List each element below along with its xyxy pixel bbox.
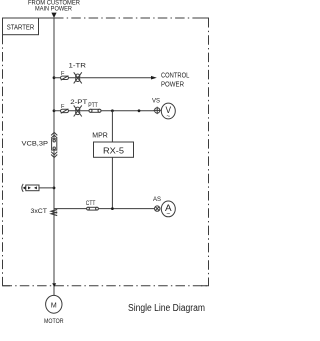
svg-text:PTT: PTT [88,103,98,109]
wire: branch 2 PT/meter [54,110,154,112]
svg-text:RX-5: RX-5 [103,146,124,156]
svg-text:F: F [61,104,65,110]
node: junction on PT branch [138,109,141,112]
svg-text:F: F [61,71,65,77]
svg-text:CONTROL: CONTROL [161,73,189,80]
node: FROM CUSTOMER MAIN POWER label [28,0,80,13]
svg-text:2-PT: 2-PT [70,99,87,106]
svg-text:MAIN POWER: MAIN POWER [35,6,72,13]
svg-text:AS: AS [153,196,161,203]
svg-text:~: ~ [166,211,170,218]
wire: bottom boundary dash-dot [3,285,209,287]
ammeter A [161,201,175,218]
motor M [44,295,64,324]
wire: branch 1 to control power [54,77,152,79]
node: junction to MPR [111,109,114,112]
test block CTT [86,201,99,210]
wire: top-right boundary corner [201,18,209,25]
surge arrester [22,184,39,192]
transformer 2-PT [70,99,87,117]
wire: left boundary dash-dot [2,35,4,286]
fuse F (branch 2) [61,104,69,113]
svg-text:MPR: MPR [92,132,108,139]
svg-text:POWER: POWER [161,82,184,89]
wire: right boundary dash-dot [208,18,210,286]
wire: bottom-right boundary corner [201,279,209,286]
node: junction branch 1 [53,76,56,79]
wire: main bus vertical [53,18,55,296]
svg-text:VS: VS [152,98,160,105]
svg-text:VCB,3P: VCB,3P [22,141,49,148]
arrow: control power [151,76,157,80]
fuse F (branch 1) [61,71,69,80]
svg-text:3xCT: 3xCT [31,208,48,215]
voltmeter V [161,103,175,120]
switch VS [152,98,161,115]
svg-text:STARTER: STARTER [7,25,35,32]
node: CONTROL POWER label [161,73,189,89]
svg-text:Single Line Diagram: Single Line Diagram [128,303,205,314]
wire: top boundary dash-dot [54,17,209,19]
node: junction CT branch / MPR [111,207,114,210]
wire: MPR relay drop line [111,111,113,209]
transformer 1-TR [69,63,87,84]
svg-text:CTT: CTT [86,201,96,207]
switch AS [153,196,161,211]
svg-text:M: M [51,303,57,310]
wire: starter box to supply junction [39,17,55,19]
STARTER box [3,18,39,35]
wire: CT metering branch [54,208,154,210]
node: junction surge arrester branch [53,187,56,190]
test block PTT [88,103,101,113]
svg-text:1-TR: 1-TR [69,63,87,70]
relay MPR RX-5 [92,132,133,157]
svg-text:~: ~ [166,113,170,120]
breaker VCB,3P [22,132,58,157]
wire: bottom-left boundary corner [3,279,11,286]
current transformer 3xCT [31,208,58,216]
svg-text:MOTOR: MOTOR [44,318,64,325]
node: junction branch 2 [53,109,56,112]
arrow: feed to motor at boundary [52,283,56,287]
incoming supply arrow [51,13,56,18]
wire: surge arrester branch [24,187,54,189]
